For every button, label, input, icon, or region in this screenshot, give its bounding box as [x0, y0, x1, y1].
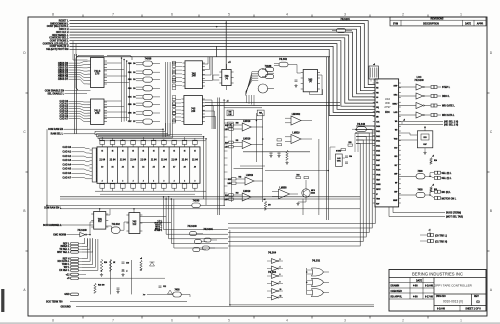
- terminator sel1: [434, 176, 437, 179]
- RAM input wire CAD A5: [72, 169, 90, 170]
- svg-text:74S40: 74S40: [193, 200, 200, 203]
- svg-text:LM3302: LM3302: [292, 114, 301, 116]
- svg-text:C12: C12: [163, 286, 166, 288]
- wire U23 clock drop: [99, 209, 101, 212]
- revision table frame: [390, 17, 486, 26]
- comparator U33 LM319: [242, 193, 251, 201]
- gate U8 7438 lower: [258, 84, 268, 93]
- svg-text:.1: .1: [126, 271, 127, 273]
- svg-text:CONTROLLER SEL(1) L: CONTROLLER SEL(1) L: [43, 43, 69, 45]
- wire mid horizontal 1: [265, 170, 328, 172]
- RAM chip U18 bottom stub: [153, 188, 155, 191]
- svg-text:RAM SEL L: RAM SEL L: [51, 133, 64, 136]
- svg-text:HLD: HLD: [394, 156, 397, 158]
- svg-text:2: 2: [174, 181, 175, 183]
- RAM connector pin 4: [90, 163, 93, 165]
- connector J1 pin TR SEL L: [71, 248, 79, 250]
- svg-text:21 64: 21 64: [130, 159, 136, 162]
- signal bundle vertical 2: [169, 198, 228, 239]
- svg-text:RESET L: RESET L: [59, 20, 69, 22]
- wire gate bundle to RAM bus 1: [97, 123, 168, 137]
- U5 pin box 4: [173, 112, 176, 115]
- svg-text:6-17-80: 6-17-80: [425, 296, 434, 298]
- long vertical resistor drop 1: [110, 260, 112, 294]
- title block row line appvl: [389, 298, 434, 300]
- svg-text:7438: 7438: [417, 189, 423, 192]
- RAM chip U22 bottom stub: [194, 188, 196, 191]
- wire fan to gate U7 5: [246, 81, 259, 92]
- zone tick top 2: [141, 15, 143, 18]
- gate U3g 74S08: [143, 110, 153, 115]
- svg-text:+5: +5: [264, 199, 266, 201]
- terminator R pack 0: [431, 86, 434, 89]
- svg-text:15: 15: [173, 151, 175, 153]
- terminator c0trk: [428, 234, 431, 237]
- FDC data pin wire 0: [356, 125, 375, 127]
- svg-text:DRQ: DRQ: [376, 112, 380, 114]
- RAM chip U15 bottom pin box: [121, 184, 126, 188]
- scan edge mark left: [1, 289, 4, 312]
- svg-text:CAD A4: CAD A4: [63, 163, 72, 166]
- junction dot 11: [229, 304, 231, 306]
- buffer U5 left pins: [181, 98, 184, 100]
- RAM chip U15 top stub: [122, 144, 124, 147]
- svg-text:A6: A6: [163, 166, 165, 169]
- svg-text:C: C: [490, 130, 493, 134]
- svg-text:GROUND: GROUND: [61, 306, 72, 308]
- title block sheet divider: [459, 306, 461, 312]
- svg-text:7: 7: [112, 319, 114, 323]
- svg-text:R12: R12: [239, 176, 242, 178]
- junction dot 22: [89, 234, 91, 236]
- junction dot 28: [101, 270, 103, 272]
- latch U1 input wire 4: [69, 72, 88, 74]
- svg-text:CAD A0: CAD A0: [63, 146, 72, 149]
- U4 pin box 1: [173, 65, 176, 68]
- FDC data pin wire 4: [356, 139, 375, 141]
- RAM chip U13 top pin box: [100, 140, 105, 144]
- flip-flop U24 74S112: [129, 213, 140, 234]
- resistor R36: [341, 149, 346, 151]
- signal bundle vertical 4: [174, 199, 228, 248]
- svg-text:IP: IP: [376, 194, 377, 196]
- capacitor C12: [159, 285, 162, 287]
- svg-text:SEL (1) L: SEL (1) L: [442, 178, 453, 180]
- latch U2 input wire 3: [69, 109, 88, 111]
- terminator R pack 1: [431, 95, 434, 98]
- svg-text:+5: +5: [227, 101, 229, 103]
- inverter U18d: [272, 281, 278, 286]
- svg-text:LM319: LM319: [292, 132, 300, 134]
- RAM chip U13 top stub: [101, 144, 103, 147]
- RAM cell divider 6: [158, 147, 160, 183]
- or gate U19a: [312, 268, 324, 276]
- RAM chip U13 bottom pin box: [100, 184, 105, 188]
- wire latch U1 pin to bus 1: [104, 69, 124, 71]
- U5 out wire 0: [202, 100, 212, 129]
- RAM connector pin 7: [90, 174, 93, 176]
- svg-text:3: 3: [344, 13, 346, 17]
- U40 output wire: [301, 138, 312, 140]
- svg-text:CB4: CB4: [128, 96, 132, 99]
- svg-text:TR00 L: TR00 L: [62, 264, 70, 266]
- svg-text:CAP: CAP: [423, 143, 427, 146]
- RAM chip U20 bottom stub: [173, 188, 175, 191]
- latch U1 input wire 2: [69, 67, 88, 69]
- nested wire 5: [228, 144, 360, 247]
- vertical wire pair osc: [354, 133, 356, 152]
- wire U26 to U23: [86, 222, 94, 235]
- RAM chip U20 top stub: [173, 144, 175, 147]
- svg-text:74LS240: 74LS240: [414, 79, 424, 82]
- wire HD SEL 2: [399, 124, 443, 126]
- RAM bus right bend 1: [203, 137, 205, 199]
- wire latch U1 pin to bus 0: [104, 62, 122, 64]
- RAM chip U14 top stub: [112, 144, 114, 147]
- gnd sym near U11: [295, 84, 297, 86]
- wire latch U2 pin to bus 1: [104, 106, 124, 108]
- junction dot 13: [306, 282, 308, 284]
- nested wire 3: [228, 137, 366, 238]
- svg-text:2: 2: [133, 181, 134, 183]
- pin number box 4: [173, 96, 176, 99]
- U4 pin box 5: [173, 80, 176, 83]
- vertical rail x319: [318, 139, 320, 215]
- resistor R20: [100, 259, 102, 271]
- svg-text:15: 15: [142, 151, 144, 153]
- wire drop to U5: [225, 21, 227, 70]
- capacitor C10: [122, 261, 125, 263]
- junction dot 15: [355, 132, 357, 134]
- pin number box 7: [173, 120, 176, 123]
- svg-text:+5: +5: [432, 185, 434, 187]
- svg-text:(MOT SEL TAB): (MOT SEL TAB): [446, 215, 463, 218]
- wire MOTOR BUSS: [389, 207, 445, 217]
- RAM chip U14 bottom pin box: [110, 184, 115, 188]
- RAM chip U16 bottom stub: [132, 188, 134, 191]
- vertical wire below fan 1: [248, 95, 250, 104]
- svg-text:R13: R13: [236, 192, 239, 194]
- RAM connector pin 5: [90, 167, 93, 169]
- RAM chip U22 top pin box: [193, 140, 198, 144]
- svg-text:DAL2: DAL2: [376, 135, 380, 138]
- scan mark bottom: [0, 322, 500, 324]
- RAM chip U19 bottom pin box: [162, 184, 167, 188]
- svg-text:A1: A1: [376, 101, 378, 104]
- signal bundle vertical 0: [164, 197, 229, 230]
- gate U28b: [202, 246, 209, 250]
- svg-text:21 64: 21 64: [110, 159, 116, 162]
- RAM cell divider 4: [137, 147, 139, 183]
- svg-text:EARLY: EARLY: [393, 102, 398, 105]
- svg-text:RCLK: RCLK: [376, 170, 381, 172]
- gate U8 output wire: [268, 88, 274, 90]
- RAM input wire CAD A6: [72, 173, 90, 174]
- svg-text:D5: D5: [133, 104, 135, 106]
- svg-text:8: 8: [52, 13, 54, 17]
- driver U16d: [416, 112, 423, 118]
- pin number box 5: [173, 103, 176, 106]
- filter FL1 box: [417, 131, 432, 148]
- latch U2 input wire 7: [69, 119, 88, 122]
- svg-text:CONT STROBE L: CONT STROBE L: [50, 41, 69, 43]
- RAM cell divider 8: [178, 147, 180, 183]
- flip-flop U6 bottom wire: [226, 86, 228, 90]
- gate output bus vertical 0: [165, 62, 167, 137]
- svg-text:A7: A7: [173, 166, 175, 169]
- wire fan to gate U7 3: [246, 77, 259, 93]
- buffer gate U12a: [337, 28, 346, 32]
- FDC chip right pins: [399, 82, 401, 84]
- wire U24 Q to bundle: [140, 216, 166, 218]
- flip-flop U6 74S74: [222, 69, 231, 85]
- buffer U4 right pins: [202, 62, 205, 64]
- left vertical pair a: [74, 54, 76, 134]
- svg-text:2797: 2797: [384, 105, 391, 109]
- RAM connector pin 3: [90, 160, 93, 162]
- terminator mo0: [434, 190, 437, 193]
- U4 pin box 6: [173, 84, 176, 87]
- comparator U31 LM319: [242, 141, 251, 149]
- svg-text:(C1 TRK H): (C1 TRK H): [435, 241, 447, 243]
- svg-text:2.2K: 2.2K: [228, 183, 232, 185]
- svg-text:REF L: REF L: [63, 243, 70, 245]
- comparator U31 input resistor: [229, 141, 234, 143]
- svg-text:15: 15: [132, 151, 134, 153]
- RAM chip U15 top pin box: [121, 140, 126, 144]
- wire bus drop to loop: [75, 43, 77, 56]
- svg-text:+5: +5: [228, 62, 231, 64]
- center strip pin tick 11: [224, 199, 227, 201]
- svg-text:R24: R24: [229, 111, 232, 114]
- svg-text:CB1: CB1: [128, 72, 132, 74]
- svg-text:R16: R16: [225, 142, 228, 144]
- wire rail C: [205, 105, 340, 107]
- svg-text:D6: D6: [133, 113, 135, 115]
- svg-text:CB0: CB0: [128, 63, 132, 65]
- wire COM RAM EN: [64, 128, 164, 130]
- vertical wire x229 down: [230, 230, 374, 305]
- wire loop around latch U1: [76, 56, 104, 91]
- center strip pin tick 9: [224, 185, 227, 187]
- RAM connector pin 6: [90, 171, 93, 173]
- svg-text:12: 12: [280, 295, 282, 297]
- resistor R34: [304, 177, 309, 179]
- U5 out wire 2: [202, 111, 214, 129]
- analog separator line: [243, 151, 310, 153]
- svg-text:CAD A7: CAD A7: [63, 176, 72, 179]
- wire U23 to U25 gate: [106, 226, 112, 229]
- wire gate bundle to RAM bus 2: [98, 123, 170, 139]
- diode CR1: [150, 262, 155, 266]
- data bus vertical 1: [123, 60, 125, 122]
- junction dot 14: [355, 129, 357, 131]
- wire top rail bottom-left 1: [60, 208, 360, 210]
- resistor R40 470: [264, 201, 266, 210]
- cap C5: [295, 79, 298, 81]
- svg-text:(HD SEL 1 H): (HD SEL 1 H): [444, 121, 458, 123]
- gate U27a: [190, 232, 197, 236]
- svg-text:WE: WE: [376, 92, 378, 94]
- svg-text:6-16-80: 6-16-80: [437, 309, 446, 311]
- junction dot 10: [205, 138, 207, 140]
- svg-text:21 64: 21 64: [120, 159, 126, 162]
- svg-text:(HD SEL 2 H): (HD SEL 2 H): [444, 124, 458, 126]
- long vertical rail x328 pair: [326, 57, 328, 220]
- title block row line checked: [389, 292, 434, 294]
- U39 input wires: [285, 117, 291, 119]
- connector J1 pin REF L: [71, 242, 79, 244]
- svg-text:2: 2: [143, 181, 144, 183]
- RAM chip U19 top pin box: [162, 140, 167, 144]
- svg-text:RAW: RAW: [376, 164, 380, 167]
- analog left rail pair: [217, 98, 219, 216]
- svg-text:SEL(ECT) PROT SIG: SEL(ECT) PROT SIG: [46, 49, 68, 51]
- or gate U19c: [312, 289, 324, 297]
- svg-text:CONT (SEL) DATA L: CONT (SEL) DATA L: [47, 25, 69, 28]
- svg-text:21 64: 21 64: [192, 159, 198, 162]
- wire chip to FL1 b: [399, 139, 418, 141]
- center strip pin tick 6: [224, 164, 227, 166]
- connector J2 riser 3: [82, 239, 95, 267]
- svg-text:74LS240: 74LS240: [77, 229, 87, 232]
- gate U22 74S40: [192, 203, 201, 208]
- signal bundle vertical 1: [166, 197, 228, 234]
- svg-text:R16: R16: [228, 179, 231, 181]
- long vertical a: [255, 113, 257, 162]
- zone tick bottom 1: [82, 316, 84, 319]
- title block dwg divider: [434, 293, 486, 295]
- svg-text:CB5: CB5: [128, 104, 132, 106]
- vertical wire below fan 3: [253, 95, 255, 105]
- RAM connector pin 0: [90, 149, 93, 151]
- resistor R33: [296, 177, 301, 179]
- zone tick bottom 5: [311, 316, 313, 319]
- connector J1 pin WRT SEL L: [71, 251, 79, 253]
- svg-text:SEL (0) L: SEL (0) L: [442, 173, 453, 175]
- or gate U19c inputs: [307, 290, 313, 292]
- wire FL1 top: [424, 128, 426, 131]
- svg-text:R20: R20: [104, 262, 107, 264]
- wire U11 q down: [318, 75, 323, 95]
- cap C35: [345, 161, 348, 163]
- svg-text:1: 1: [460, 319, 462, 323]
- latch U1 input wire 6: [69, 77, 88, 81]
- svg-text:D0: D0: [133, 63, 135, 65]
- title block row line drawn: [389, 287, 434, 289]
- junction dot 20: [429, 176, 431, 178]
- U5 pin box 2: [173, 105, 176, 108]
- svg-text:C: C: [23, 130, 26, 134]
- nested wire 0: [228, 126, 375, 224]
- U4 pin box 4: [173, 76, 176, 79]
- svg-text:MO (0) L: MO (0) L: [442, 192, 452, 194]
- or gate U19a inputs: [307, 269, 313, 271]
- svg-text:7: 7: [112, 13, 114, 17]
- terminator mo1: [434, 197, 437, 200]
- wire Q1 emitter: [298, 197, 306, 202]
- gnd FL1: [424, 151, 426, 153]
- gnd G1: [270, 154, 272, 156]
- buffer U5 74S240: [184, 96, 203, 125]
- svg-text:SHEET 1 OF 8: SHEET 1 OF 8: [465, 309, 481, 311]
- inverter U18a: [272, 259, 278, 264]
- svg-text:2: 2: [163, 181, 164, 183]
- wire U17a out: [425, 173, 434, 177]
- latch U1 input wire 3: [69, 70, 88, 71]
- gate U25 74LS32 oval: [111, 227, 120, 234]
- RAM input wire CAD A0: [72, 148, 90, 149]
- gate U3h 74S08: [143, 119, 153, 124]
- svg-text:8: 8: [52, 319, 54, 323]
- svg-text:4-80: 4-80: [413, 285, 418, 288]
- svg-text:OSC: OSC: [337, 161, 342, 163]
- connector J1 riser 0: [82, 238, 85, 244]
- center strip pin tick 7: [224, 171, 227, 173]
- RAM chip U15 bottom stub: [122, 188, 124, 191]
- wire U29 out: [181, 295, 190, 298]
- driver output wire 3: [437, 114, 441, 116]
- FDC data pin wire 1: [356, 129, 375, 131]
- gate U29 7438: [173, 292, 182, 297]
- RAM cell divider 9: [189, 147, 191, 183]
- U39 output wire: [301, 120, 312, 122]
- svg-text:CAD A2: CAD A2: [63, 155, 72, 158]
- flip-flop U11 74S74 box: [303, 70, 317, 92]
- svg-text:LATE: LATE: [394, 111, 398, 114]
- terminator sel0: [434, 171, 437, 174]
- junction dot 29: [122, 269, 124, 271]
- svg-text:CK REF L: CK REF L: [154, 230, 162, 232]
- svg-text:+5: +5: [67, 278, 70, 280]
- RAM lower rail 4: [60, 198, 360, 200]
- svg-text:LOC: LOC: [417, 77, 422, 79]
- svg-text:A4: A4: [142, 166, 144, 169]
- svg-text:112: 112: [133, 224, 137, 226]
- terminator c1trk: [428, 240, 431, 243]
- svg-text:A8: A8: [184, 166, 186, 169]
- wire osc rail: [330, 147, 335, 160]
- transistor Q1 MPS2222: [302, 189, 310, 197]
- wire c1trk: [420, 240, 428, 242]
- terminator R pack 2: [431, 104, 434, 107]
- svg-text:74LS240: 74LS240: [187, 225, 197, 228]
- latch U2 input wire 5: [69, 114, 88, 116]
- title block left col divider: [433, 278, 435, 312]
- data bus vertical 3: [128, 63, 130, 121]
- wire COM ENABLE: [65, 90, 91, 92]
- RAM chip U18 top stub: [153, 144, 155, 147]
- diode CR2: [168, 290, 173, 294]
- RAM chip U21 bottom stub: [184, 188, 186, 191]
- gate output bus vertical 2: [169, 62, 171, 135]
- wire latch U1 pin to bus 2: [104, 75, 127, 77]
- latch U2 input wire 6: [69, 116, 88, 119]
- gate U9b oval left: [265, 67, 274, 71]
- svg-text:R13: R13: [423, 137, 426, 139]
- bus wire CRU CLK H: [70, 32, 376, 97]
- wire BUSS TERM: [393, 207, 445, 213]
- svg-text:RD APPVL: RD APPVL: [391, 295, 403, 298]
- svg-text:4: 4: [286, 319, 288, 323]
- svg-text:CAD A7: CAD A7: [60, 117, 69, 120]
- U5 pin box 1: [173, 102, 176, 105]
- svg-text:2: 2: [402, 13, 404, 17]
- analog rung 1: [224, 107, 262, 109]
- analog rung 2: [224, 119, 262, 121]
- svg-text:74LS244: 74LS244: [340, 18, 350, 21]
- RAM address bus line 1: [97, 136, 204, 138]
